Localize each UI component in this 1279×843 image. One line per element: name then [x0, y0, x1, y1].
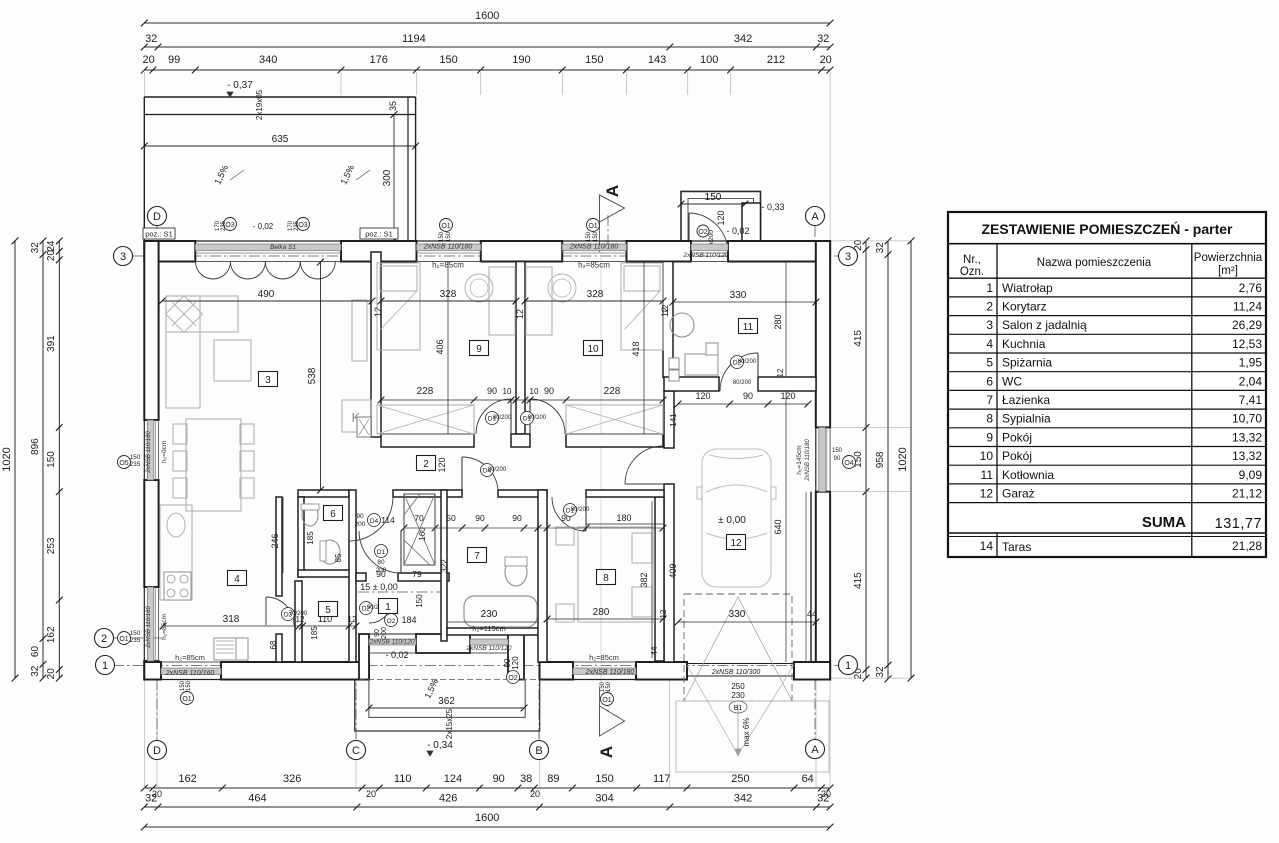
svg-text:6: 6 [330, 509, 336, 520]
svg-text:1600: 1600 [475, 10, 499, 22]
svg-text:12,53: 12,53 [1232, 337, 1262, 351]
svg-text:150: 150 [439, 231, 445, 242]
svg-text:4: 4 [234, 574, 240, 585]
svg-text:79: 79 [412, 569, 422, 579]
svg-text:35: 35 [388, 101, 398, 111]
svg-text:180: 180 [616, 513, 631, 523]
svg-text:h₂=85cm: h₂=85cm [161, 614, 168, 640]
svg-text:2x19x05: 2x19x05 [255, 89, 264, 120]
svg-text:2: 2 [986, 300, 993, 314]
svg-text:- 0,37: - 0,37 [227, 80, 253, 91]
svg-text:200: 200 [376, 567, 387, 574]
svg-text:896: 896 [30, 438, 41, 455]
svg-text:90: 90 [743, 391, 753, 401]
svg-text:90: 90 [834, 456, 841, 462]
svg-text:406: 406 [435, 339, 445, 354]
svg-text:342: 342 [734, 33, 752, 45]
svg-text:Belka S1: Belka S1 [270, 244, 296, 251]
svg-text:80/200: 80/200 [733, 380, 752, 386]
svg-text:2,76: 2,76 [1239, 281, 1263, 295]
svg-text:- 0,34: - 0,34 [427, 740, 453, 751]
svg-text:9: 9 [986, 430, 993, 444]
svg-text:O1: O1 [588, 223, 597, 230]
svg-text:415: 415 [853, 572, 864, 589]
svg-text:250: 250 [731, 682, 745, 691]
svg-text:3: 3 [120, 251, 126, 263]
svg-text:185: 185 [310, 626, 319, 640]
svg-text:250: 250 [731, 773, 749, 785]
svg-text:90: 90 [356, 513, 364, 520]
svg-text:90: 90 [512, 513, 522, 523]
svg-text:120: 120 [511, 656, 520, 670]
svg-text:D: D [153, 211, 161, 223]
svg-text:3: 3 [845, 251, 851, 263]
svg-text:5: 5 [325, 605, 331, 616]
svg-text:O2: O2 [387, 618, 396, 625]
svg-text:150: 150 [415, 594, 424, 608]
svg-text:300: 300 [382, 169, 393, 186]
svg-text:64: 64 [802, 773, 814, 785]
svg-text:2x15x25: 2x15x25 [445, 708, 454, 739]
svg-text:280: 280 [593, 607, 610, 618]
svg-text:2xNSB 110/180: 2xNSB 110/180 [805, 439, 811, 482]
svg-text:12: 12 [515, 309, 525, 319]
svg-text:h₂=85cm: h₂=85cm [578, 261, 610, 270]
svg-text:141: 141 [669, 413, 678, 427]
svg-text:D1: D1 [377, 549, 386, 556]
svg-text:7: 7 [986, 393, 993, 407]
svg-text:O5: O5 [119, 460, 128, 467]
svg-text:322: 322 [440, 559, 449, 573]
svg-text:38: 38 [520, 773, 532, 785]
svg-text:32: 32 [30, 242, 41, 254]
svg-text:99: 99 [168, 54, 180, 66]
svg-text:12: 12 [980, 487, 994, 501]
svg-text:O4: O4 [844, 460, 853, 467]
svg-text:max 6%: max 6% [742, 718, 751, 747]
svg-text:80/200: 80/200 [738, 359, 757, 365]
svg-text:12: 12 [776, 368, 785, 377]
svg-text:WC: WC [1002, 374, 1022, 388]
svg-text:110: 110 [394, 773, 412, 785]
svg-text:464: 464 [248, 793, 266, 805]
svg-text:Pokój: Pokój [1002, 449, 1032, 463]
svg-text:228: 228 [417, 386, 434, 397]
svg-text:- 0,02: - 0,02 [726, 226, 749, 236]
svg-text:235: 235 [294, 220, 300, 231]
svg-text:Kotłownia: Kotłownia [1002, 468, 1054, 482]
svg-text:Łazienka: Łazienka [1002, 393, 1050, 407]
svg-text:20: 20 [366, 789, 376, 799]
svg-text:150: 150 [832, 448, 843, 454]
svg-text:12: 12 [373, 307, 383, 317]
svg-text:230: 230 [731, 691, 745, 700]
svg-text:11,24: 11,24 [1233, 300, 1262, 314]
svg-text:1: 1 [102, 660, 108, 672]
svg-text:Nazwa pomieszczenia: Nazwa pomieszczenia [1037, 257, 1152, 269]
svg-text:68: 68 [269, 640, 278, 649]
svg-text:90: 90 [487, 386, 497, 396]
svg-text:D4: D4 [370, 518, 379, 525]
svg-text:2xNSB 110/120: 2xNSB 110/120 [465, 645, 511, 652]
svg-text:h₂=85cm: h₂=85cm [175, 653, 205, 662]
svg-text:70/200: 70/200 [289, 611, 308, 617]
svg-text:50: 50 [446, 513, 456, 523]
svg-text:90: 90 [544, 386, 554, 396]
svg-text:8: 8 [603, 573, 609, 584]
svg-text:328: 328 [587, 289, 604, 300]
svg-text:89: 89 [547, 773, 559, 785]
svg-text:490: 490 [258, 289, 275, 300]
svg-text:4: 4 [986, 337, 993, 351]
svg-text:9: 9 [476, 344, 482, 355]
svg-text:2xNSB 110/120: 2xNSB 110/120 [682, 252, 728, 259]
svg-text:1194: 1194 [402, 33, 426, 45]
svg-text:418: 418 [631, 341, 641, 356]
svg-text:80/200: 80/200 [488, 467, 507, 473]
svg-text:C: C [352, 745, 360, 757]
svg-text:O1: O1 [441, 223, 450, 230]
svg-text:11: 11 [981, 468, 994, 482]
svg-text:85: 85 [334, 553, 343, 562]
svg-text:131,77: 131,77 [1215, 516, 1262, 532]
svg-text:2,04: 2,04 [1239, 374, 1263, 388]
svg-text:SUMA: SUMA [1142, 514, 1186, 531]
svg-text:415: 415 [853, 330, 864, 347]
svg-text:O2: O2 [508, 675, 517, 682]
svg-text:2: 2 [101, 633, 107, 645]
svg-text:1: 1 [845, 660, 851, 672]
svg-text:326: 326 [283, 773, 301, 785]
svg-text:1: 1 [986, 281, 993, 295]
svg-text:A: A [597, 746, 616, 758]
svg-text:B1: B1 [734, 705, 743, 712]
svg-text:32: 32 [145, 33, 157, 45]
svg-text:90: 90 [493, 773, 505, 785]
svg-text:2xNSB 110/180: 2xNSB 110/180 [146, 431, 152, 474]
svg-text:2xNSB 110/180: 2xNSB 110/180 [423, 244, 473, 251]
svg-text:253: 253 [46, 537, 57, 554]
svg-text:Kuchnia: Kuchnia [1002, 337, 1046, 351]
svg-text:12: 12 [659, 609, 668, 618]
svg-text:21,28: 21,28 [1232, 539, 1262, 553]
svg-text:7,41: 7,41 [1239, 393, 1263, 407]
svg-text:44: 44 [807, 609, 817, 619]
svg-text:1020: 1020 [897, 447, 909, 471]
svg-text:150: 150 [705, 192, 722, 203]
svg-text:h₂=0cm: h₂=0cm [161, 441, 168, 463]
svg-text:143: 143 [648, 54, 666, 66]
svg-text:12: 12 [661, 304, 670, 313]
svg-text:10,70: 10,70 [1232, 412, 1262, 426]
svg-text:13,32: 13,32 [1232, 449, 1262, 463]
svg-text:150: 150 [186, 680, 192, 691]
svg-text:120: 120 [780, 391, 795, 401]
svg-text:Ozn.: Ozn. [960, 266, 984, 278]
svg-text:- 0,02: - 0,02 [385, 650, 408, 660]
svg-text:235: 235 [221, 220, 227, 231]
svg-text:150: 150 [595, 773, 613, 785]
svg-text:230: 230 [481, 609, 498, 620]
svg-text:A: A [811, 744, 819, 756]
svg-text:150: 150 [593, 231, 599, 242]
svg-text:A: A [603, 185, 622, 197]
svg-text:228: 228 [604, 386, 621, 397]
svg-text:426: 426 [439, 793, 457, 805]
svg-text:635: 635 [272, 134, 289, 145]
svg-text:poz.: S1: poz.: S1 [145, 230, 173, 239]
svg-text:O1: O1 [602, 697, 611, 704]
svg-text:80/200: 80/200 [571, 507, 590, 513]
svg-text:2xNSB 110/180: 2xNSB 110/180 [146, 606, 152, 649]
svg-text:3: 3 [986, 318, 993, 332]
svg-text:200: 200 [355, 521, 366, 528]
svg-text:150: 150 [46, 451, 57, 468]
svg-text:162: 162 [46, 626, 57, 643]
svg-text:21,12: 21,12 [1232, 487, 1262, 501]
svg-text:391: 391 [46, 335, 57, 352]
svg-text:Sypialnia: Sypialnia [1002, 412, 1051, 426]
svg-text:12: 12 [348, 615, 357, 624]
svg-text:h₂=85cm: h₂=85cm [432, 261, 464, 270]
svg-text:200: 200 [381, 627, 388, 639]
svg-text:162: 162 [178, 773, 196, 785]
svg-text:2xNSB 110/180: 2xNSB 110/180 [585, 669, 635, 676]
svg-text:8: 8 [986, 412, 993, 426]
svg-text:Pokój: Pokój [1002, 430, 1032, 444]
svg-text:14: 14 [980, 539, 994, 553]
svg-text:13,32: 13,32 [1232, 430, 1262, 444]
svg-text:poz.: S1: poz.: S1 [365, 230, 393, 239]
svg-text:10: 10 [587, 344, 599, 355]
svg-text:1,95: 1,95 [1239, 356, 1263, 370]
svg-text:± 0,00: ± 0,00 [718, 515, 746, 526]
svg-text:184: 184 [401, 615, 416, 625]
svg-text:150: 150 [446, 231, 452, 242]
svg-text:340: 340 [259, 54, 277, 66]
svg-text:185: 185 [306, 531, 315, 545]
svg-text:640: 640 [773, 519, 783, 534]
svg-text:90: 90 [475, 513, 485, 523]
svg-text:B: B [535, 745, 542, 757]
svg-text:190: 190 [512, 54, 530, 66]
svg-text:Garaż: Garaż [1002, 487, 1035, 501]
svg-text:304: 304 [595, 793, 613, 805]
svg-text:120: 120 [716, 210, 726, 225]
svg-text:32: 32 [30, 665, 41, 677]
svg-text:Wiatrołap: Wiatrołap [1002, 281, 1053, 295]
svg-text:3: 3 [265, 375, 271, 386]
svg-text:7: 7 [474, 551, 480, 562]
svg-text:h₂=115cm: h₂=115cm [472, 624, 505, 633]
svg-text:90: 90 [374, 629, 381, 637]
svg-text:[m²]: [m²] [1218, 265, 1238, 277]
svg-text:362: 362 [438, 696, 455, 707]
svg-text:20: 20 [46, 668, 57, 680]
svg-text:Taras: Taras [1002, 540, 1031, 554]
svg-text:Nr.,: Nr., [963, 254, 981, 266]
svg-text:5: 5 [986, 356, 993, 370]
svg-text:Powierzchnia: Powierzchnia [1194, 252, 1263, 264]
svg-text:150: 150 [606, 681, 612, 692]
svg-text:124: 124 [444, 773, 462, 785]
svg-text:Spiżarnia: Spiżarnia [1002, 356, 1052, 370]
svg-text:Korytarz: Korytarz [1002, 300, 1047, 314]
svg-text:h₂=145cm: h₂=145cm [796, 445, 803, 474]
svg-text:150: 150 [130, 454, 141, 461]
svg-text:330: 330 [729, 609, 746, 620]
svg-text:2xNSB 110/300: 2xNSB 110/300 [711, 669, 761, 676]
svg-text:O1: O1 [182, 696, 191, 703]
svg-text:32: 32 [817, 793, 829, 805]
svg-text:ZESTAWIENIE POMIESZCZEŃ - part: ZESTAWIENIE POMIESZCZEŃ - parter [982, 221, 1234, 237]
svg-text:32: 32 [875, 666, 886, 678]
svg-text:80/200: 80/200 [528, 415, 547, 421]
svg-text:120: 120 [437, 457, 447, 472]
svg-text:1020: 1020 [1, 447, 13, 471]
svg-text:6: 6 [986, 374, 993, 388]
svg-text:235: 235 [130, 461, 141, 468]
svg-text:1: 1 [385, 602, 391, 613]
svg-text:330: 330 [730, 290, 747, 301]
svg-text:10: 10 [503, 387, 512, 396]
svg-text:11: 11 [743, 322, 754, 333]
svg-text:235: 235 [130, 637, 141, 644]
svg-text:538: 538 [307, 367, 318, 384]
svg-text:246: 246 [270, 533, 280, 548]
svg-text:Salon z jadalnią: Salon z jadalnią [1002, 318, 1087, 332]
svg-text:120: 120 [695, 391, 710, 401]
svg-text:80: 80 [377, 559, 385, 566]
svg-text:9,09: 9,09 [1239, 468, 1263, 482]
svg-text:409: 409 [668, 563, 678, 578]
svg-text:26,29: 26,29 [1232, 318, 1262, 332]
svg-text:150: 150 [585, 54, 603, 66]
svg-text:958: 958 [875, 451, 886, 468]
svg-text:1600: 1600 [475, 812, 499, 824]
svg-text:44: 44 [650, 646, 659, 655]
svg-text:176: 176 [370, 54, 388, 66]
svg-text:2xNSB 110/160: 2xNSB 110/160 [165, 670, 215, 677]
svg-text:60: 60 [30, 646, 41, 658]
svg-text:32: 32 [817, 33, 829, 45]
svg-text:15 ± 0,00: 15 ± 0,00 [360, 582, 397, 592]
svg-text:150: 150 [130, 630, 141, 637]
svg-text:h₂=85cm: h₂=85cm [589, 653, 619, 662]
svg-text:318: 318 [223, 614, 240, 625]
svg-text:114: 114 [381, 515, 395, 525]
svg-text:20: 20 [142, 54, 154, 66]
svg-text:20: 20 [46, 250, 57, 262]
svg-text:2: 2 [423, 459, 429, 470]
svg-text:- 0,33: - 0,33 [761, 202, 784, 212]
svg-text:- 0,02: - 0,02 [253, 222, 274, 231]
svg-text:20: 20 [820, 54, 832, 66]
svg-text:150: 150 [586, 231, 592, 242]
svg-text:12: 12 [730, 538, 742, 549]
svg-text:O2: O2 [698, 229, 707, 236]
svg-text:32: 32 [145, 793, 157, 805]
svg-text:32: 32 [875, 242, 886, 254]
svg-text:280: 280 [773, 314, 783, 329]
svg-text:342: 342 [734, 793, 752, 805]
svg-text:24: 24 [46, 240, 57, 252]
svg-text:2xNSB 110/180: 2xNSB 110/180 [569, 244, 619, 251]
svg-text:150: 150 [439, 54, 457, 66]
svg-text:10: 10 [980, 449, 994, 463]
svg-text:D: D [153, 745, 161, 757]
svg-text:10: 10 [530, 387, 539, 396]
svg-text:A: A [811, 211, 819, 223]
svg-text:100: 100 [700, 54, 718, 66]
svg-text:382: 382 [639, 572, 649, 587]
svg-text:212: 212 [767, 54, 785, 66]
svg-text:20: 20 [530, 789, 540, 799]
svg-text:O1: O1 [119, 636, 128, 643]
svg-text:2xNSB 110/120: 2xNSB 110/120 [368, 639, 414, 646]
svg-text:80/200: 80/200 [493, 415, 512, 421]
svg-text:117: 117 [653, 773, 671, 785]
